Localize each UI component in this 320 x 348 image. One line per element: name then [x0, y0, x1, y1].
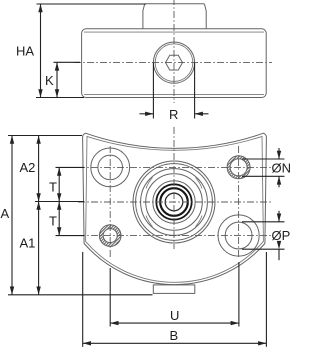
svg-text:HA: HA	[16, 44, 34, 59]
top view body	[82, 29, 267, 98]
dimension A	[1, 136, 153, 295]
svg-text:ØN: ØN	[272, 161, 292, 176]
svg-text:U: U	[170, 308, 179, 323]
svg-text:T: T	[49, 180, 57, 195]
svg-text:A2: A2	[20, 160, 36, 175]
dimension T lower	[49, 202, 84, 236]
dimension R	[140, 63, 209, 122]
svg-text:K: K	[45, 73, 54, 88]
lower-right port hole P	[218, 215, 259, 256]
upper holes centerline	[78, 166, 271, 168]
upper-left port hole	[91, 148, 130, 187]
dimension HA	[16, 4, 146, 98]
svg-text:A1: A1	[20, 236, 36, 251]
dimension A2	[20, 136, 85, 202]
dimension U	[110, 262, 239, 327]
dimension B	[83, 252, 267, 347]
bottom tab	[153, 285, 195, 294]
right holes vertical centerline	[238, 146, 240, 259]
dimension N (diameter)	[242, 148, 291, 187]
svg-text:A: A	[1, 206, 10, 221]
central boss circles	[133, 161, 215, 243]
front view main vertical centerline	[173, 127, 175, 249]
plug circle with chamfer	[153, 42, 194, 83]
top view vertical centerline	[173, 0, 175, 103]
boss corner step arcs	[146, 178, 202, 227]
svg-text:R: R	[169, 107, 178, 122]
dimension T upper	[49, 167, 84, 201]
dimension A1	[20, 202, 41, 295]
front view outer outline	[83, 133, 267, 284]
svg-text:B: B	[170, 328, 179, 343]
front view main horizontal centerline	[78, 201, 271, 203]
lower-left threaded hole	[99, 225, 121, 247]
lower holes centerline	[78, 235, 271, 237]
svg-text:T: T	[49, 214, 57, 229]
front view inner chamfer outline	[86, 136, 264, 282]
svg-text:ØP: ØP	[272, 228, 291, 243]
hex socket	[166, 55, 183, 70]
top view boss block (trapezoid)	[143, 4, 206, 29]
dimension P (diameter)	[242, 211, 290, 260]
left holes vertical centerline	[109, 146, 111, 259]
dimension K	[45, 62, 80, 97]
upper-right threaded hole N	[227, 156, 250, 179]
top view horizontal centerline	[74, 62, 272, 64]
